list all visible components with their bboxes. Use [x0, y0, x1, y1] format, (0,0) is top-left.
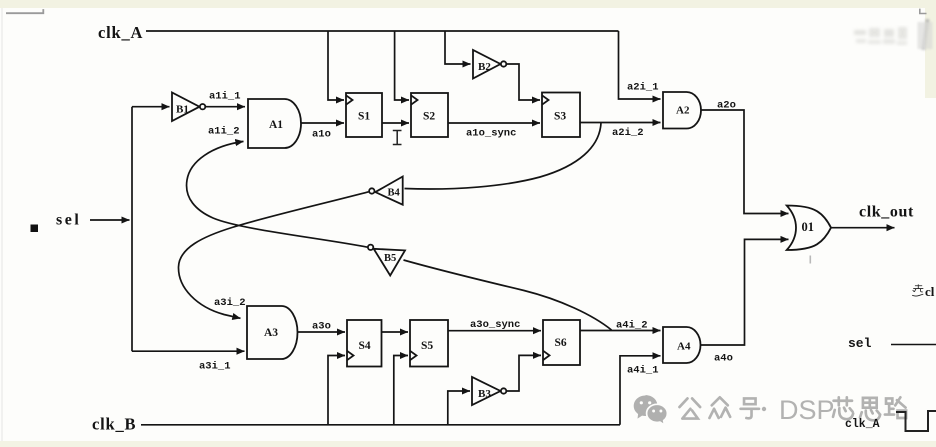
and-gate A3 — [247, 306, 298, 359]
timing-diagram sel wire — [891, 344, 936, 346]
wire B5 output a1i_2 to A1 (feedback curve) — [187, 141, 368, 247]
watermark char gong — [679, 398, 700, 418]
svg-text:B4: B4 — [388, 188, 401, 199]
wire S4 to S5 — [382, 331, 409, 333]
watermark text — [679, 397, 906, 420]
window-edge artifact top-left — [6, 9, 43, 13]
svg-text:S2: S2 — [423, 111, 435, 123]
svg-text:a4o: a4o — [714, 353, 733, 365]
wire S2 to S3 alo_sync — [448, 122, 540, 124]
flip-flop S1 — [346, 93, 382, 137]
svg-text:A1: A1 — [269, 119, 283, 131]
svg-text:S6: S6 — [555, 337, 567, 349]
svg-text:DSP: DSP — [779, 395, 835, 425]
watermark wechat icon — [634, 395, 658, 419]
timing-diagram clk_A waveform — [896, 411, 936, 431]
wire clk_B to B3 input — [448, 391, 470, 425]
svg-text:a3i_1: a3i_1 — [199, 361, 231, 373]
wire B2 output to S3 clock — [507, 64, 540, 100]
and-gate A2 — [663, 92, 701, 129]
wire clk_A to B2 input — [445, 31, 471, 64]
svg-text:a4i_2: a4i_2 — [616, 320, 648, 332]
svg-text:A4: A4 — [677, 341, 691, 353]
wire clk_B to A4 input a4i_1 — [620, 356, 661, 425]
svg-text:clk_A: clk_A — [98, 23, 143, 42]
inverter B3 — [472, 377, 506, 405]
flip-flop S5 — [410, 320, 448, 367]
wire clk_A to S2 clock — [395, 31, 409, 100]
svg-text:a2i_1: a2i_1 — [627, 82, 659, 94]
or-gate O1 — [787, 206, 831, 251]
wire A2 output a2o to O1 — [701, 110, 789, 214]
and-gate A1 — [248, 99, 301, 148]
wire A4 output a4o to O1 — [701, 239, 789, 345]
wire sel riser — [131, 107, 133, 352]
wire A1 output alo to S1 — [301, 122, 345, 124]
inverter B2 — [473, 50, 506, 79]
wire S5 to S6 a3o_sync — [448, 330, 541, 332]
svg-text:a1i_2: a1i_2 — [208, 126, 240, 138]
svg-text:a2i_2: a2i_2 — [612, 127, 644, 139]
svg-text:S4: S4 — [359, 340, 371, 352]
flip-flop S2 — [411, 93, 448, 137]
inverter B4 — [369, 177, 403, 205]
wire clk_B to S4 clock — [328, 356, 345, 425]
wire S3 output a2i_2 to A2 — [580, 122, 661, 124]
wire S6 output a4i_2 to A4 — [580, 330, 661, 332]
watermark char zhong — [709, 397, 730, 418]
watermark ghost text top-right — [854, 27, 907, 45]
watermark char si — [860, 398, 880, 420]
svg-text:S5: S5 — [421, 340, 433, 352]
inverter B5 — [368, 245, 405, 276]
svg-text:a3o: a3o — [312, 321, 331, 333]
wire S1 to S2 — [382, 122, 409, 124]
wire S3 output to B4 input (feedback curve) — [405, 123, 602, 190]
svg-text:a4i_1: a4i_1 — [627, 365, 659, 377]
svg-text:a3i_2: a3i_2 — [214, 297, 246, 309]
gray dash below O1 — [810, 256, 812, 264]
svg-text:a1o: a1o — [312, 129, 331, 141]
flip-flop S6 — [543, 320, 580, 365]
svg-text:clk_B: clk_B — [92, 415, 136, 434]
svg-text:a2o: a2o — [717, 100, 736, 112]
and-gate A4 — [663, 327, 701, 363]
timing-diagram label 选c (cut off) — [912, 284, 923, 296]
watermark char hao — [741, 398, 759, 418]
svg-text:clk_out: clk_out — [859, 204, 914, 221]
wire A3 output a3o to S4 — [298, 331, 346, 333]
watermark middot — [762, 407, 766, 411]
svg-text:B1: B1 — [176, 104, 189, 116]
svg-text:01: 01 — [802, 220, 815, 234]
watermark smudge top-right — [918, 19, 933, 50]
window-edge artifact top-right — [920, 9, 927, 14]
svg-text:a1o_sync: a1o_sync — [466, 128, 516, 140]
wire O1 output clk_out — [831, 227, 895, 229]
svg-text:clk_A: clk_A — [845, 418, 880, 431]
wire S6 output to B5 input (feedback curve) — [404, 260, 612, 330]
watermark char lu — [885, 397, 906, 418]
svg-text:sel: sel — [848, 336, 872, 351]
svg-text:S3: S3 — [554, 111, 566, 123]
wire B1 output a1i_1 to A1 — [206, 106, 246, 108]
svg-text:B5: B5 — [384, 253, 396, 264]
svg-text:A3: A3 — [264, 327, 278, 339]
black square mark — [31, 225, 39, 233]
svg-text:S1: S1 — [358, 111, 370, 123]
svg-text:B2: B2 — [478, 61, 491, 73]
svg-text:a1i_1: a1i_1 — [209, 91, 241, 103]
wire sel to A3 input a3i_1 — [132, 350, 245, 352]
net clk_A wire — [146, 30, 619, 32]
inverter B1 — [172, 93, 205, 122]
cursor artifact — [393, 131, 402, 145]
net clk_B wire — [141, 424, 620, 426]
wire sel input — [90, 219, 130, 221]
wire B3 output to S6 clock — [507, 355, 541, 391]
svg-text:B3: B3 — [478, 388, 491, 400]
svg-text:cl: cl — [925, 284, 935, 299]
wire clk_A to A2 input a2i_1 — [619, 31, 661, 99]
wire clk_B to S5 clock — [394, 356, 408, 425]
flip-flop S4 — [347, 320, 382, 367]
wire sel to B1 — [132, 106, 170, 108]
wire B4 output to A3 input a3i_2 (feedback curve) — [178, 192, 368, 318]
flip-flop S3 — [542, 93, 580, 138]
watermark char xin — [833, 397, 853, 419]
wire clk_A to S1 clock — [328, 31, 344, 100]
svg-text:a3o_sync: a3o_sync — [470, 319, 520, 331]
svg-text:sel: sel — [56, 212, 81, 229]
svg-text:A2: A2 — [676, 105, 690, 117]
